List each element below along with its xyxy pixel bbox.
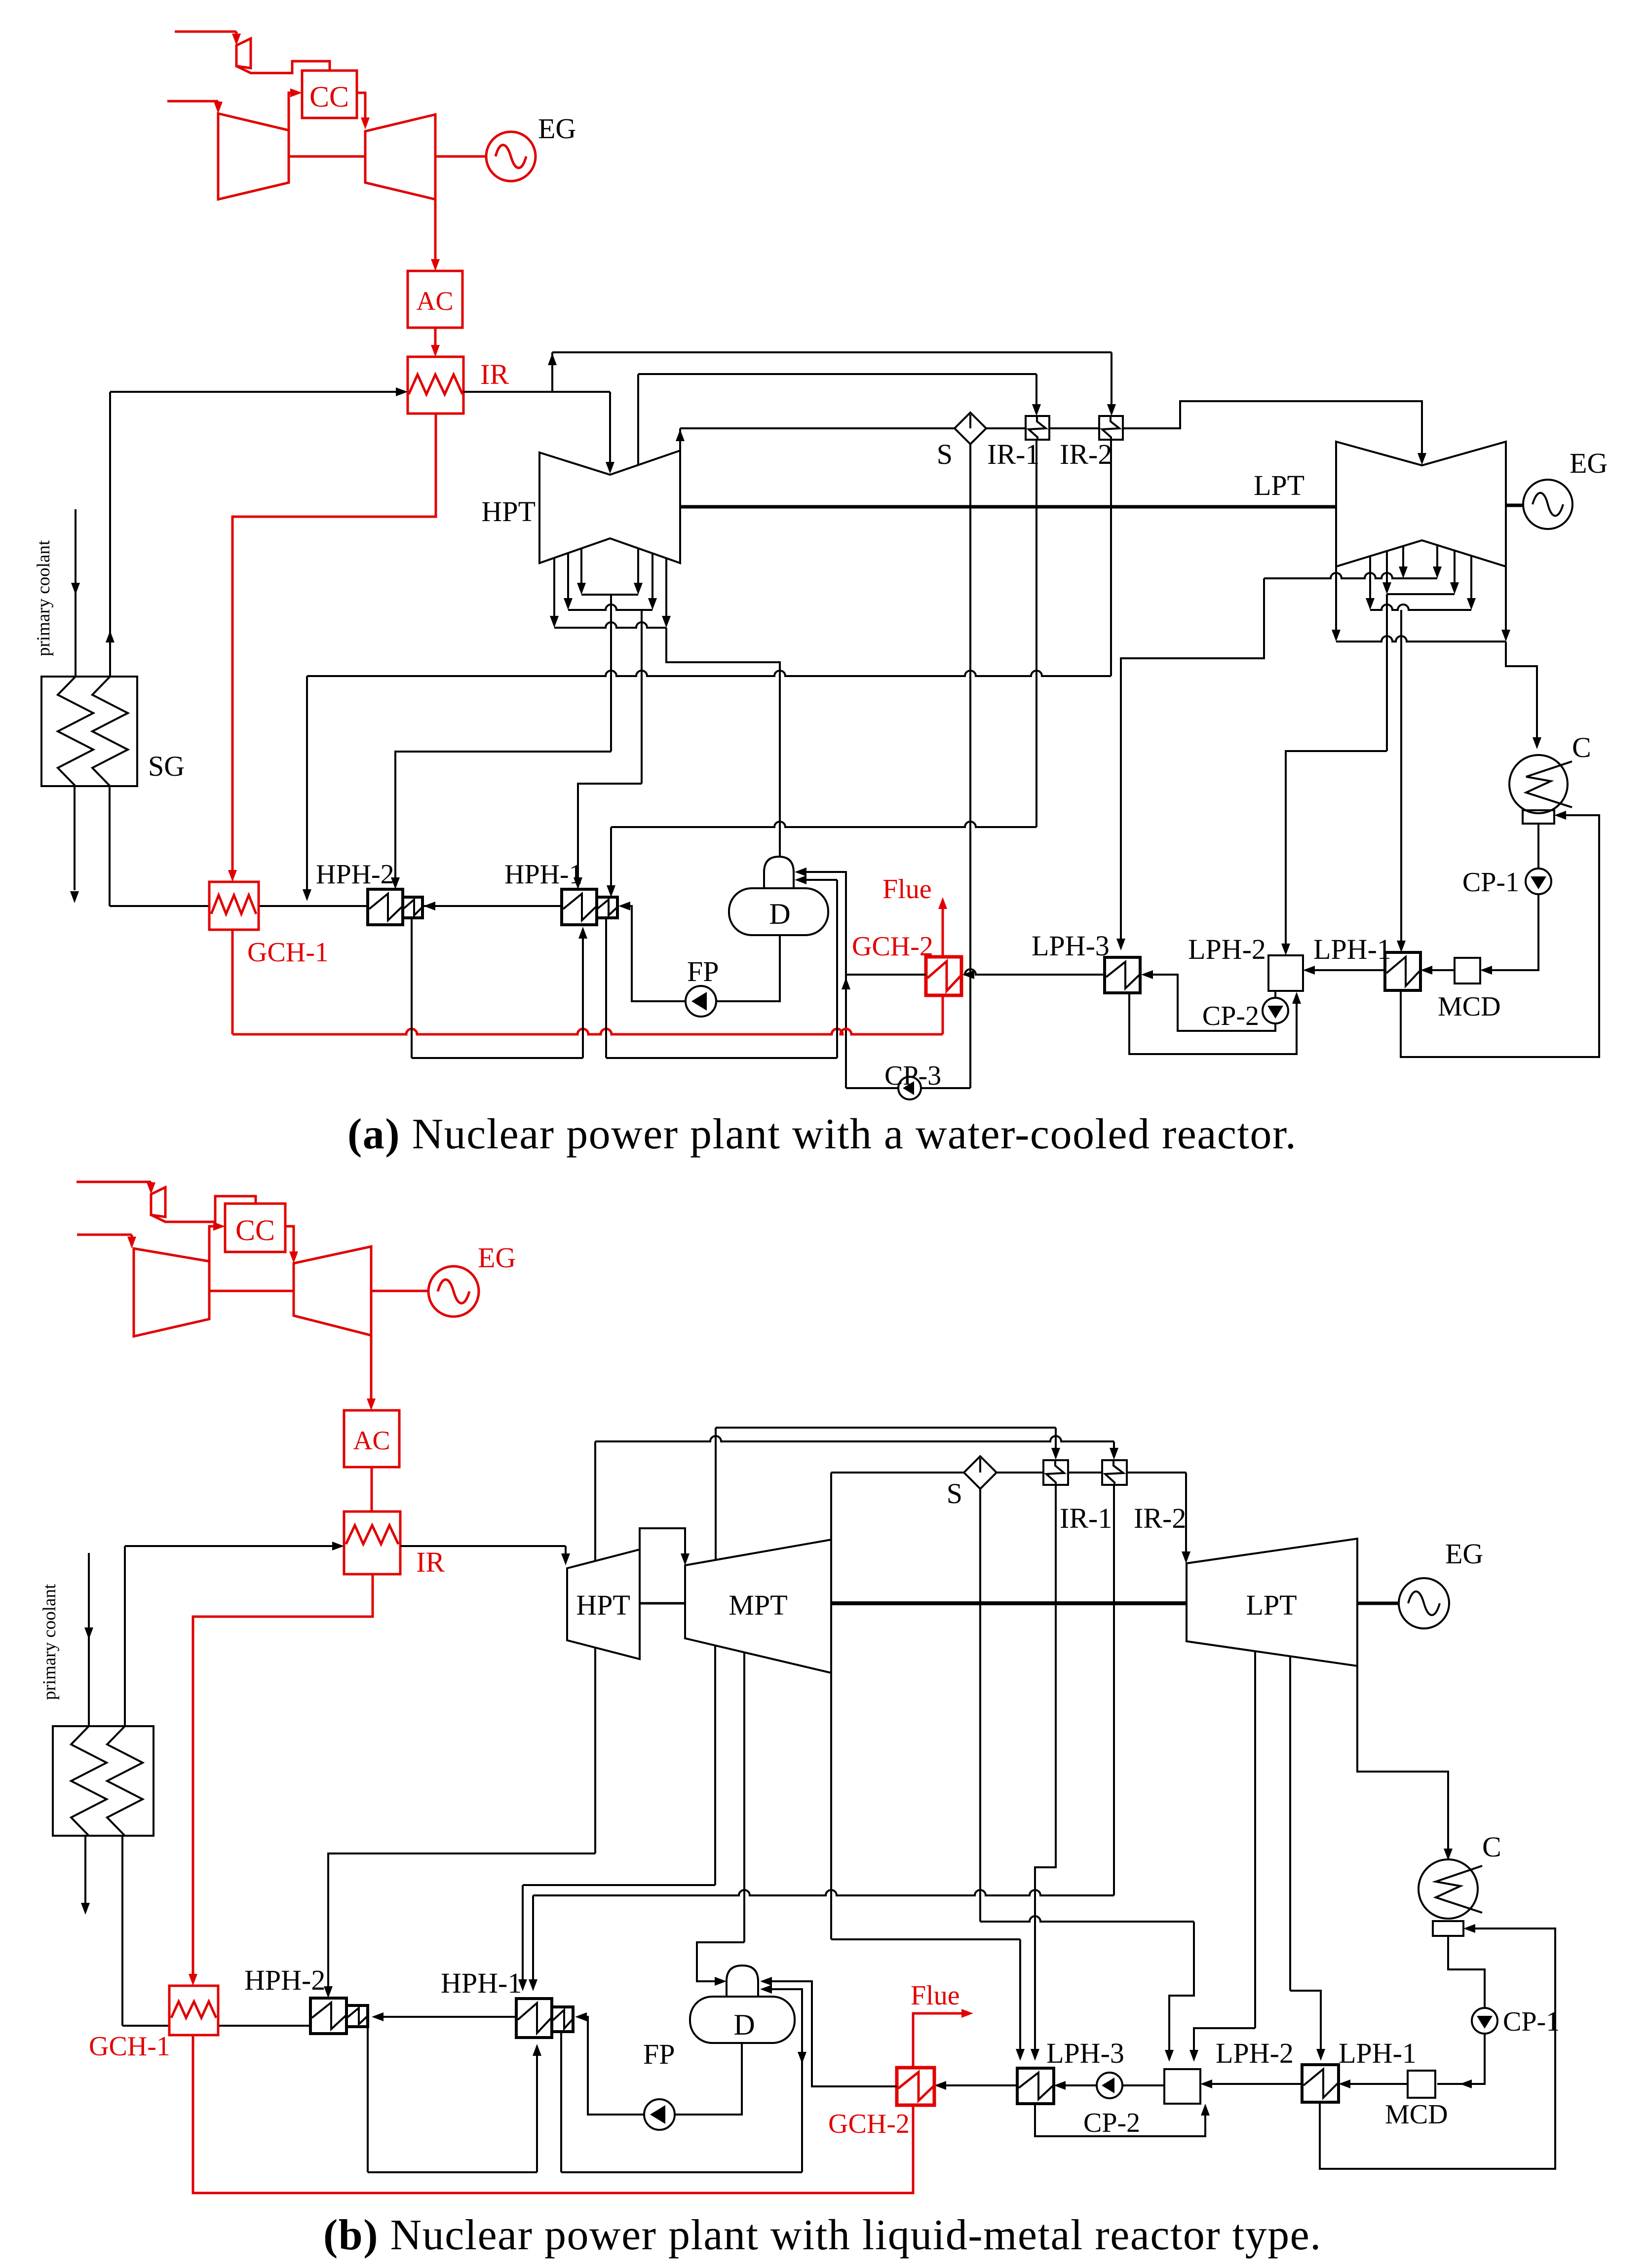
arrow into dome b left	[715, 1977, 727, 1986]
arrow primary coolant inlet b	[84, 1627, 93, 1639]
arrow red gas into GCH-1	[228, 870, 237, 882]
arrow flue right b	[961, 2009, 973, 2018]
wire HPT b bottom tap to HPH-2	[594, 1648, 596, 1853]
wire MPT exhaust riser	[830, 1473, 832, 1540]
arrow into GCH-2 b right	[934, 2081, 946, 2090]
wire HPT collector U1	[581, 594, 638, 596]
wire LPH-3 to GCH-2 b	[941, 2084, 1017, 2086]
wire LPT exhaust right corner	[1505, 567, 1507, 635]
wire HPT extraction to IR-1	[637, 374, 639, 465]
arrow LPT tap into LPH-2 top	[1189, 2050, 1198, 2062]
wire CP-2 to LPH-3 b	[1061, 2084, 1097, 2086]
svg-text:GCH-2: GCH-2	[828, 2109, 910, 2139]
svg-text:(a) Nuclear power plant with a: (a) Nuclear power plant with a water-coo…	[347, 1110, 1297, 1158]
wire IR-1 to IR-2	[1049, 427, 1099, 429]
arrow primary coolant outlet b	[81, 1903, 90, 1915]
wire LPH-2 to CP-2	[1274, 991, 1276, 998]
svg-text:CC: CC	[309, 80, 349, 113]
svg-text:(b) Nuclear power plant with l: (b) Nuclear power plant with liquid-meta…	[323, 2211, 1322, 2259]
wire IR-1 b drain	[1035, 1484, 1056, 2054]
condenser b hotwell	[1433, 1921, 1463, 1936]
SG b coil 2	[107, 1726, 143, 1836]
wire primary coolant inlet b	[88, 1553, 90, 1726]
wire LPT extraction to LPH-2	[1386, 594, 1388, 751]
arrow into IR-1 b top	[1051, 1448, 1060, 1460]
SG b coil 1	[71, 1726, 107, 1836]
wire FP discharge to HPH-1	[625, 906, 686, 1001]
turbine MPT	[685, 1540, 831, 1673]
arrow into HPT b inlet	[561, 1553, 570, 1565]
wire GT shaft to EG b (red)	[371, 1290, 428, 1292]
wire CC to gas turbine b (red)	[285, 1226, 294, 1256]
wire hotwell b to CP-1	[1448, 1936, 1485, 2008]
wire fuel inlet line b (red)	[77, 1181, 151, 1183]
condenser hotwell	[1523, 810, 1554, 824]
heater LPH-1 (a)	[1385, 952, 1420, 990]
wire IR outlet to HPT	[463, 391, 610, 393]
gas turbine (red)	[365, 114, 435, 199]
wire HPT b live-steam tap to IR-2	[594, 1441, 596, 1561]
svg-text:IR-2: IR-2	[1060, 438, 1112, 470]
wire CP-1 to MCD b	[1437, 2034, 1485, 2084]
wire S drain to CP-3	[921, 1087, 970, 1089]
arrow into gas turbine inlet	[361, 117, 370, 129]
turbine HPT b	[567, 1550, 640, 1659]
svg-text:AC: AC	[353, 1426, 390, 1455]
svg-text:primary coolant: primary coolant	[39, 1584, 60, 1700]
svg-text:CP-1: CP-1	[1462, 867, 1519, 898]
svg-text:EG: EG	[478, 1242, 516, 1274]
arrow into LPH-2 b right	[1200, 2079, 1212, 2088]
svg-text:CP-3: CP-3	[884, 1060, 941, 1091]
arrow up into HPH-1 b bottom	[533, 2044, 541, 2056]
svg-text:FP: FP	[643, 2038, 675, 2070]
svg-text:Flue: Flue	[882, 874, 932, 905]
wire exhaust to separator b	[831, 1472, 964, 1474]
svg-text:GCH-2: GCH-2	[852, 931, 933, 962]
arrow red gas into GCH-1 b	[189, 1974, 197, 1986]
wire S b drain	[979, 1489, 981, 1922]
gas turbine b (red)	[294, 1247, 371, 1335]
wire GCH-2 outlet to dome riser	[846, 974, 926, 976]
pump CP-3 (a)	[898, 1077, 921, 1099]
svg-text:C: C	[1572, 731, 1591, 763]
wire GCH-2 condensate to dome	[802, 872, 846, 975]
heater LPH-2 b (plain box)	[1164, 2069, 1200, 2104]
svg-text:CC: CC	[235, 1214, 275, 1247]
arrow into CC left	[290, 88, 302, 97]
generator EG (gas turbine)	[486, 132, 536, 181]
arrow into LPT b inlet	[1182, 1551, 1190, 1563]
arrow into hotwell right	[1554, 811, 1566, 820]
wire air inlet line b (red)	[77, 1234, 132, 1236]
arrow into LPH-2 top	[1281, 944, 1290, 955]
svg-text:IR-1: IR-1	[1060, 1502, 1112, 1534]
wire MCD to LPH-1 b	[1345, 2083, 1408, 2085]
wire HPT-MPT shaft	[640, 1602, 685, 1605]
heater LPH-3 (a)	[1105, 957, 1140, 993]
svg-text:MCD: MCD	[1438, 991, 1501, 1022]
separator S b	[964, 1456, 997, 1489]
wire HPH-2 drain to HPH-1	[412, 1057, 583, 1059]
arrow IR-1 drain into LPH-3 top	[1031, 2049, 1039, 2061]
pump CP-2 b	[1097, 2073, 1122, 2098]
compressor b (red)	[134, 1248, 209, 1336]
svg-text:HPT: HPT	[576, 1589, 630, 1621]
arrow into HPH-1 drain cooler top	[607, 885, 615, 897]
pump FP b	[644, 2099, 675, 2130]
wire red gas GCH-1 to GCH-2 b	[193, 2035, 913, 2193]
arrow into gas turbine inlet b	[289, 1251, 298, 1263]
arrow IR-2 drain into HPH-1 top	[529, 1979, 537, 1991]
svg-text:CP-2: CP-2	[1083, 2108, 1140, 2138]
arrow into HPH-1 cooler right	[618, 902, 630, 910]
wire IR-1 drain to HPH-1 cooler	[611, 822, 1036, 827]
wire LPT b exhaust to condenser	[1357, 1666, 1448, 1852]
wire LPT exhaust to condenser	[1506, 642, 1537, 741]
arrow MPT drain into LPH-3 top	[1016, 2049, 1025, 2061]
wire HPH-2 cooler drain	[411, 918, 413, 1058]
wire IR-2 drain down	[1110, 440, 1112, 676]
arrow drain joins feedwater	[303, 889, 311, 901]
svg-text:GCH-1: GCH-1	[247, 937, 329, 968]
gas condensate heater GCH-2 (red)	[926, 957, 961, 995]
svg-text:HPH-2: HPH-2	[244, 1964, 325, 1996]
wire LPH-1 to LPH-2	[1310, 969, 1385, 971]
heater LPH-2 (a plain box)	[1268, 955, 1303, 991]
arrow into IR-2 b top	[1110, 1448, 1118, 1460]
turbine LPT (a)	[1336, 442, 1506, 567]
wire exhaust steam to separator	[680, 427, 955, 429]
svg-text:Flue: Flue	[911, 1980, 960, 2011]
LPT extraction stub L1	[1369, 555, 1371, 603]
svg-text:LPT: LPT	[1246, 1589, 1297, 1621]
IR heating element zigzag	[409, 375, 462, 394]
arrow SG steam up	[106, 631, 115, 643]
arrow into IR-2 top	[1107, 404, 1116, 416]
svg-text:CP-2: CP-2	[1202, 1001, 1259, 1031]
HPT extraction stub R3	[665, 558, 667, 621]
steam generator SG	[41, 677, 137, 786]
wire MPT tap to HPH-1	[714, 1645, 716, 1885]
arrow into hotwell b right	[1463, 1924, 1475, 1933]
svg-text:C: C	[1482, 1831, 1501, 1863]
reheater IR-2 b	[1102, 1460, 1127, 1485]
air cooler AC	[408, 271, 462, 328]
arrow CP-3 discharge up	[842, 978, 850, 989]
svg-text:HPH-2: HPH-2	[316, 859, 394, 890]
wire turbine shaft HPT-LPT	[680, 505, 1336, 509]
wire LPT tap to LPH-1	[1289, 1656, 1291, 1991]
wire drain collector to dome riser b	[561, 2171, 802, 2173]
arrow live steam branch up	[548, 353, 557, 365]
wire extraction 1 drop to HPH-2	[610, 595, 612, 752]
arrow into LPH-2 right	[1303, 966, 1315, 975]
turbine LPT b	[1187, 1539, 1357, 1666]
wire LPH-1 b drain to hotwell	[1320, 1928, 1555, 2169]
svg-text:IR-1: IR-1	[987, 438, 1039, 470]
wire branch live steam riser	[551, 352, 553, 392]
wire extraction 3 to deaerator	[666, 628, 780, 857]
svg-text:MPT: MPT	[729, 1589, 787, 1621]
wire LPT collector U3	[1370, 605, 1471, 610]
wire GCH-2 b outlet to dome	[767, 1981, 897, 2086]
wire feedwater HPH-2 to GCH-1	[259, 905, 368, 907]
wire feedwater GCH-1 to SG	[110, 905, 209, 907]
arrow fuel inlet	[232, 34, 241, 45]
wire GT shaft to EG (red)	[435, 155, 486, 158]
wire LPT tap to LPH-2	[1254, 1651, 1256, 2028]
wire HPT b exhaust duct to MPT	[640, 1528, 685, 1558]
wire compressor to CC (red)	[289, 93, 296, 130]
wire LPT collector U2	[1387, 593, 1455, 595]
arrow into HPH-2 top	[391, 877, 400, 889]
HPT extraction stub R1	[637, 548, 639, 588]
arrow into CC left b	[213, 1222, 225, 1231]
pump CP-2 (a)	[1263, 998, 1288, 1023]
heater LPH-3 b	[1017, 2068, 1054, 2104]
wire MCD to LPH-1	[1427, 969, 1455, 971]
IR b heating element zigzag	[346, 1525, 398, 1544]
svg-text:S: S	[937, 438, 953, 470]
arrow into HPH-2 cooler	[423, 902, 435, 910]
combustion chamber CC b	[225, 1204, 285, 1252]
svg-text:LPH-3: LPH-3	[1046, 2037, 1124, 2069]
LPT extraction stub R3	[1470, 556, 1472, 603]
arrow S drain into LPH-2 top	[1165, 2050, 1174, 2062]
arrow into LPT inlet	[1418, 453, 1426, 465]
fuel inlet flag b	[151, 1187, 165, 1217]
wire GT shaft (red)	[289, 155, 365, 158]
condenser C b	[1419, 1859, 1478, 1919]
svg-text:HPH-1: HPH-1	[504, 859, 583, 890]
svg-text:LPH-3: LPH-3	[1032, 930, 1110, 962]
wire HPT exhaust riser	[679, 428, 681, 451]
svg-text:HPH-1: HPH-1	[441, 1967, 522, 1999]
svg-text:EG: EG	[1570, 447, 1608, 479]
wire MPT tap to IR-1	[715, 1428, 717, 1560]
wire gas turbine to AC b (red)	[370, 1335, 373, 1403]
wire HPT collector U3	[554, 622, 666, 628]
SG coil 1	[58, 677, 93, 786]
intermediate reheater IR b (red box)	[344, 1512, 400, 1574]
svg-text:MCD: MCD	[1385, 2099, 1448, 2130]
wire IR-1 to IR-2 b	[1068, 1472, 1102, 1474]
fuel inlet flag	[236, 38, 251, 68]
wire gas turbine to AC (red)	[434, 199, 437, 263]
arrow flue up	[938, 897, 947, 909]
steam generator SG b	[53, 1726, 153, 1836]
svg-text:primary coolant: primary coolant	[34, 540, 54, 656]
heater HPH-2 (a)	[368, 889, 403, 925]
wire primary coolant outlet	[74, 786, 76, 890]
wire LPT extraction to LPH-1	[1400, 610, 1402, 945]
arrow into IR b left	[332, 1542, 344, 1550]
wire steam line into IR b	[125, 1545, 337, 1547]
svg-text:LPH-2: LPH-2	[1216, 2037, 1294, 2069]
generator EG (steam, a)	[1523, 480, 1572, 529]
arrow up into LPH-2 bottom	[1292, 992, 1301, 1004]
arrow into condenser	[1533, 737, 1541, 749]
wire LPH-1 drain to hotwell	[1401, 815, 1599, 1057]
arrow into HPH-1 b top	[518, 1979, 527, 1991]
svg-text:LPT: LPT	[1254, 469, 1304, 501]
turbine HPT (a)	[539, 451, 680, 563]
generator EG (gas turbine b)	[428, 1266, 479, 1317]
wire LPT shaft to EG	[1506, 504, 1523, 507]
HPT extraction stub L1	[553, 558, 555, 621]
HPT extraction stub L2	[567, 553, 569, 603]
svg-text:LPH-1: LPH-1	[1313, 933, 1391, 965]
wire feedwater HPH-2 to GCH-1 b	[218, 2025, 310, 2027]
combustion chamber CC	[302, 71, 357, 118]
gas condensate heater GCH-1 b (red)	[169, 1986, 218, 2035]
svg-text:GCH-1: GCH-1	[89, 2031, 170, 2062]
wire AC to IR (red)	[434, 328, 437, 349]
wire HPT collector U2	[568, 605, 652, 610]
wire feedwater HPH-1 to HPH-2	[422, 905, 562, 907]
wire drain riser to dome b	[767, 1989, 802, 2172]
wire HPH-1 b cooler drain	[560, 2032, 562, 2172]
wire CP-3 discharge riser	[846, 1087, 898, 1089]
arrow into LPH-1 b right	[1339, 2079, 1350, 2088]
LPT extraction stub L3	[1402, 546, 1404, 571]
svg-text:D: D	[769, 898, 790, 930]
wire turbine shaft MPT-LPT	[831, 1601, 1187, 1605]
arrow fuel inlet b	[147, 1182, 155, 1194]
arrow air inlet	[214, 102, 223, 113]
heater HPH-1 (a)	[562, 889, 597, 925]
wire GT shaft b (red)	[209, 1290, 294, 1292]
svg-text:EG: EG	[538, 113, 576, 145]
wire IR-2 to LPT b	[1127, 1472, 1186, 1474]
arrow into IR-1 top	[1032, 404, 1041, 416]
wire LPH-3 b drain to LPH-2	[1035, 2104, 1205, 2136]
wire feedwater into SG bottom	[109, 786, 111, 906]
wire LPT exhaust left corner	[1335, 567, 1337, 635]
gas condensate heater GCH-2 b (red)	[897, 2068, 934, 2105]
wire LPT shaft to EG b	[1357, 1602, 1399, 1605]
arrow into LPH-3 right	[1141, 970, 1153, 979]
wire D bottom to FP	[717, 935, 780, 1001]
reheater IR-2 (a)	[1099, 416, 1123, 440]
separator S (a)	[955, 413, 986, 444]
heater HPH-2 b	[310, 1998, 346, 2034]
arrow into MPT inlet	[681, 1553, 690, 1565]
wire IR-1 drain down	[1035, 440, 1037, 827]
wire red gas GCH-1 to GCH-2	[231, 930, 234, 1034]
wire red gas IR to GCH-1 b	[193, 1574, 373, 1978]
generator EG (steam, b)	[1399, 1578, 1449, 1628]
wire flag to CC duct (red)	[236, 61, 330, 73]
svg-text:LPH-2: LPH-2	[1188, 933, 1266, 965]
wire LPH-1 to LPH-2 b	[1207, 2083, 1302, 2085]
wire red flue exit	[942, 905, 944, 957]
intermediate reheater IR (red box)	[408, 357, 463, 414]
arrow into IR left	[396, 387, 408, 396]
svg-text:SG: SG	[148, 750, 185, 782]
arrow into LPH-1 top	[1397, 941, 1406, 952]
wire heater drains to dome	[836, 880, 838, 1058]
svg-text:IR: IR	[480, 358, 509, 390]
wire MPT tap to deaerator b	[743, 1652, 745, 1942]
arrow primary coolant outlet	[70, 891, 79, 903]
wire LPH-3 drain to LPH-2	[1129, 993, 1297, 1054]
reheater IR-1 b	[1043, 1460, 1068, 1485]
arrow into GCH-2 right	[962, 970, 974, 979]
condensate demineralizer MCD b	[1408, 2071, 1435, 2098]
pump CP-1 (a)	[1526, 869, 1551, 894]
arrow into AC	[431, 259, 440, 271]
wire LPH-2 to CP-2 b	[1122, 2084, 1164, 2086]
wire LPT exhaust collector	[1336, 636, 1506, 642]
arrow into HPT inlet	[606, 462, 614, 474]
arrow air inlet b	[127, 1237, 136, 1248]
arrow up into HPH-1 bottom	[578, 927, 587, 939]
svg-text:IR: IR	[416, 1546, 445, 1578]
arrow into AC b	[367, 1399, 376, 1410]
arrow HPT exhaust up	[676, 429, 685, 441]
wire fuel inlet line (red)	[175, 31, 236, 33]
wire S drain to LPH-2	[980, 1916, 1194, 1922]
wire live steam to IR-2	[552, 351, 1112, 353]
wire CP-1 to MCD	[1487, 894, 1538, 970]
HPH-1 drain cooler box	[597, 897, 617, 918]
wire LPT collector U1 to LPH-3	[1264, 573, 1437, 578]
arrow into IR top	[431, 345, 440, 357]
HPH-2 b drain cooler box	[346, 2005, 368, 2027]
arrow into HPH-2 b top	[324, 1986, 333, 1998]
deaerator D vessel b	[690, 1997, 795, 2043]
arrow into dome upper	[795, 868, 806, 876]
arrow into HPH-2 b cooler	[372, 2012, 383, 2021]
wire red flue exit b	[913, 2013, 965, 2068]
HPH-1 b drain cooler box	[552, 2007, 573, 2032]
svg-text:AC: AC	[416, 286, 453, 316]
wire feedwater GCH-1 to SG b	[122, 2025, 169, 2027]
LPT extraction stub R1	[1436, 545, 1438, 571]
svg-text:EG: EG	[1445, 1538, 1483, 1570]
arrow into dome b lower right	[760, 1985, 772, 1994]
HPT extraction stub L3	[580, 548, 582, 588]
SG coil 2	[92, 677, 128, 786]
wire SG steam riser to IR	[109, 392, 111, 677]
wire S to IR-1 b	[997, 1472, 1043, 1474]
deaerator D vessel	[729, 888, 828, 935]
deaerator dome	[764, 857, 794, 888]
arrow into MCD b right	[1460, 2079, 1472, 2088]
heater HPH-1 b	[516, 1999, 552, 2038]
wire HPH-2 drain to HPH-1 b	[368, 2171, 537, 2173]
arrow drain direction down	[798, 2052, 806, 2064]
gas condensate heater GCH-1 (red)	[209, 882, 259, 930]
wire HPH-2 b cooler drain	[367, 2027, 369, 2172]
arrow primary coolant inlet	[71, 583, 80, 595]
svg-text:S: S	[947, 1477, 962, 1510]
wire FP b discharge to HPH-1	[582, 2017, 644, 2115]
air cooler AC b	[344, 1410, 399, 1467]
wire IR-2 b drain long line	[1113, 1484, 1115, 1895]
wire primary coolant outlet b	[84, 1836, 86, 1904]
wire feedwater HPH-1 to HPH-2 b	[379, 2016, 516, 2018]
svg-text:IR-2: IR-2	[1134, 1502, 1186, 1534]
wire AC to IR b (red)	[371, 1467, 373, 1512]
wire HPT inlet drop	[609, 392, 611, 467]
arrow into LPH-1 right	[1420, 966, 1432, 975]
wire CP-2 to LPH-3	[1148, 975, 1275, 1031]
LPT extraction stub L2	[1386, 550, 1388, 587]
HPH-2 drain cooler box	[403, 897, 422, 918]
